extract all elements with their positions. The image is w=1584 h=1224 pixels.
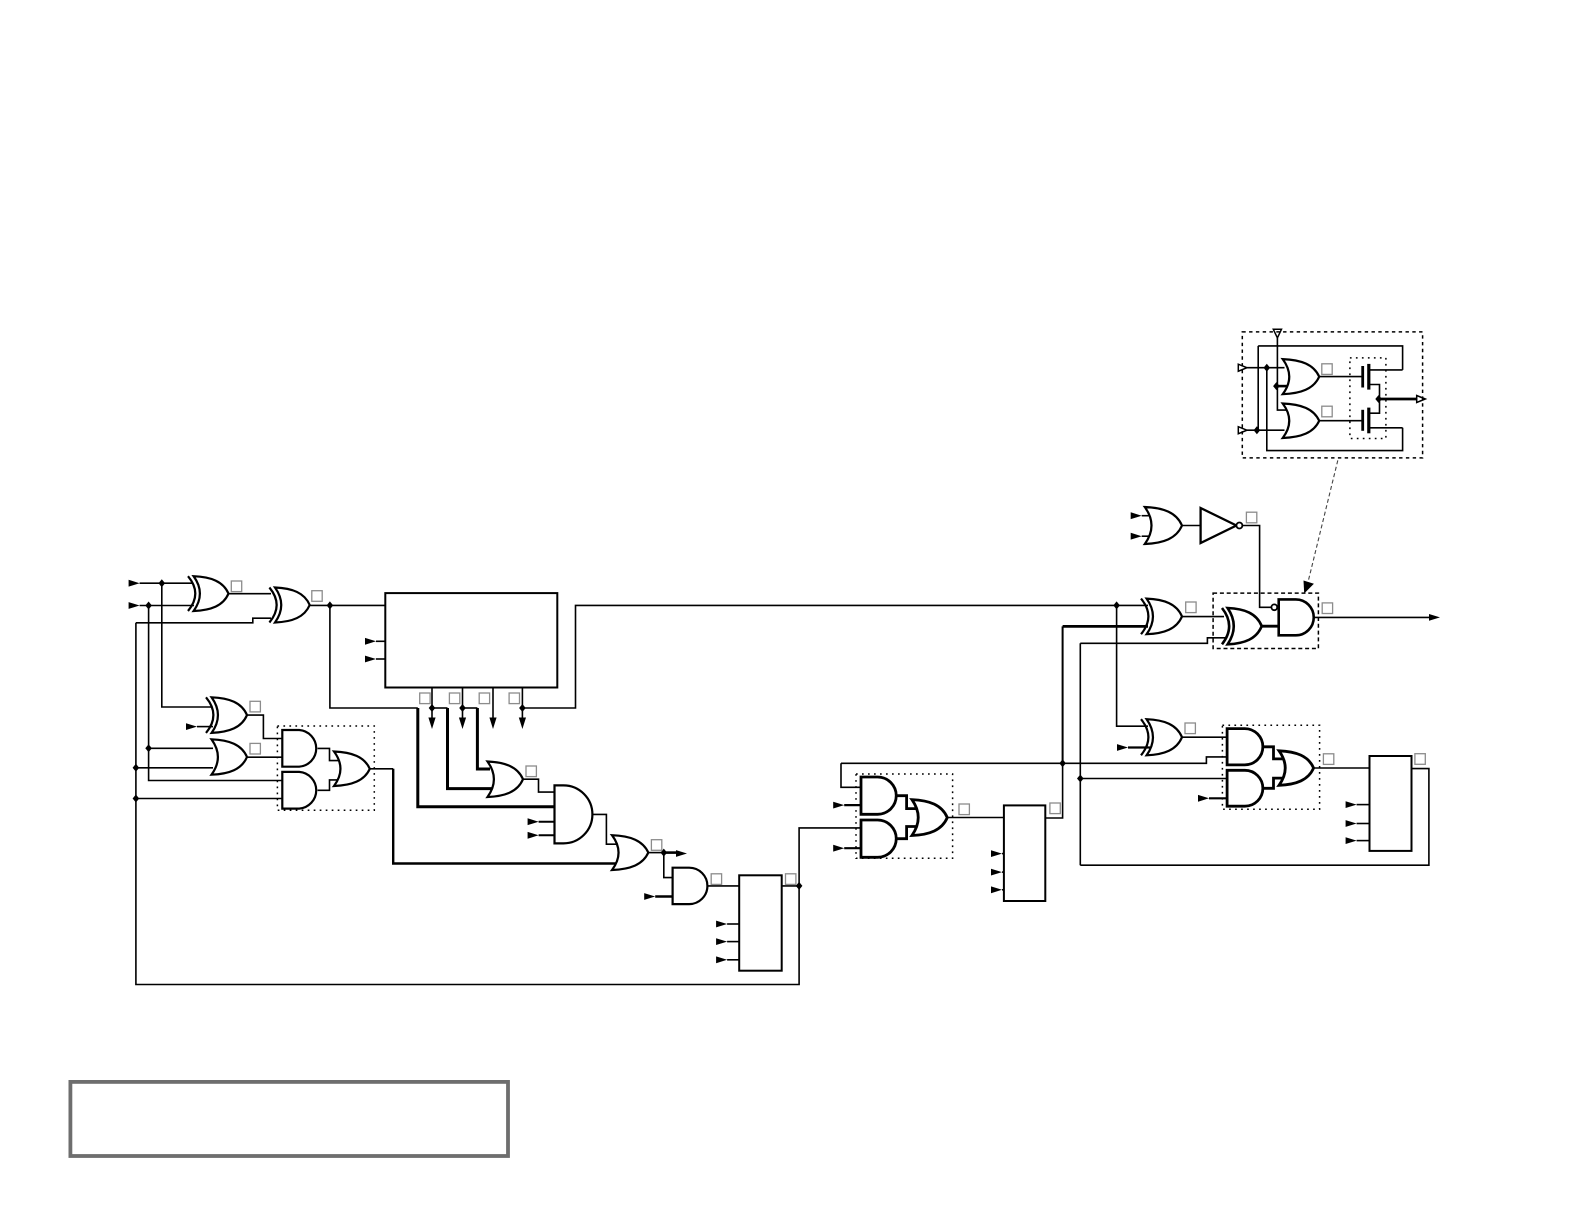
wire XOR U16 out to XOR U19 bbox=[1182, 616, 1224, 618]
wire node B down to AND U6 input bbox=[149, 606, 284, 781]
label square XOR U17 bbox=[1185, 723, 1195, 734]
and gate U11 bbox=[673, 868, 708, 904]
wire output arrow stub D1 bbox=[664, 851, 679, 854]
junction node B bbox=[145, 602, 152, 610]
wire arrow to AND U11 input2 bbox=[655, 895, 674, 898]
wire net A up to XOR U16 input2 bbox=[1062, 626, 1064, 763]
input arrow AND U9 pin3 bbox=[528, 818, 539, 825]
xor gate U2 bbox=[269, 588, 309, 623]
wire transistor Q2 drain to out bbox=[1369, 399, 1380, 413]
wire down to XOR U17 input1 bbox=[1117, 605, 1148, 726]
output arrow block out2 bbox=[459, 718, 466, 730]
and gate U12 mid box top bbox=[861, 777, 896, 814]
input arrow AND U9 pin4 bbox=[528, 832, 539, 839]
wire input A to XOR U1 bbox=[140, 582, 194, 584]
label square OR U13o bbox=[959, 804, 969, 815]
wire block M1 input arrow 2 bbox=[376, 658, 385, 660]
wire block M1 output2 stub bbox=[462, 688, 464, 720]
xor gate U16 bbox=[1141, 599, 1182, 635]
and gate U9 4-input bbox=[555, 785, 593, 843]
wire output2 to OR U8 upper input bbox=[477, 708, 490, 769]
junction OR U10 out bbox=[661, 849, 668, 857]
wire net A thick to XOR U16 input2 bbox=[1063, 625, 1148, 628]
junction node B to OR U4 bbox=[145, 744, 152, 752]
wire feedback left rail and bottom rail bbox=[136, 623, 799, 985]
wire inverter U15 out down to AND U20 bubble bbox=[1242, 526, 1271, 608]
junction node A bbox=[159, 579, 166, 587]
wire output1 to OR U8 lower input bbox=[448, 708, 495, 789]
wire OR U14 input arrow stub 1 bbox=[1142, 515, 1153, 517]
block M1 lookup table bbox=[385, 593, 557, 687]
wire block M3 input arrow 2 bbox=[1002, 871, 1004, 873]
input arrow block M3 pin3 bbox=[991, 886, 1002, 893]
input arrow block M4 pin1 bbox=[1346, 801, 1357, 808]
wire block M3 out up to net A junction bbox=[1045, 763, 1062, 818]
wire AND U12 out step to OR mid bbox=[896, 796, 917, 809]
wire OR D2 out to transistor Q2 gate bbox=[1319, 420, 1361, 422]
and gate U6 bbox=[282, 772, 316, 809]
wire XOR U2 out to block M1 bbox=[310, 604, 386, 606]
inverter U15 bbox=[1201, 508, 1243, 543]
and gate U21 right box bottom bbox=[1227, 770, 1263, 806]
wire XOR U1 out to XOR U2 bbox=[229, 593, 272, 595]
wire AND U9 input arrow stub 2 bbox=[539, 834, 556, 836]
label square block M2 bbox=[786, 874, 796, 885]
wire output2 branch bbox=[463, 707, 478, 709]
wire AND U5 out step to OR U7 bbox=[318, 748, 340, 760]
output arrow D1 bbox=[676, 850, 687, 857]
wire net B branch to AND U21 input1 bbox=[1080, 778, 1229, 780]
wire net A run y763 bbox=[841, 757, 1229, 763]
input arrow AND U21 bbox=[1198, 795, 1209, 802]
input arrow OR U14 pin1 bbox=[1131, 512, 1142, 519]
input arrow block M2 pin3 bbox=[716, 956, 727, 963]
input arrow block M3 pin2 bbox=[991, 869, 1002, 876]
or gate U7 bbox=[334, 752, 370, 787]
wire detail input S vertical bbox=[1277, 338, 1288, 410]
label square OR U4 bbox=[250, 743, 260, 754]
wire net B bottom to block M4 out bbox=[1080, 769, 1429, 866]
wire junction up to AND U13 input bbox=[799, 828, 862, 886]
xor gate U17 bbox=[1141, 719, 1182, 755]
label square AND U11 bbox=[711, 874, 721, 885]
input arrow block M1 pin1 bbox=[365, 638, 376, 645]
wire AND U6 out step to OR U7 bbox=[318, 780, 340, 790]
label square XOR U1 bbox=[231, 581, 241, 592]
dotted box left AND-OR group bbox=[277, 726, 374, 810]
open arrow detail input B bbox=[1238, 427, 1247, 434]
wire block M4 input arrow 1 bbox=[1357, 804, 1370, 806]
label square OR D1 bbox=[1322, 364, 1332, 375]
junction feedback-OR U4 bbox=[133, 764, 140, 772]
input arrow XOR U3 bbox=[186, 723, 197, 730]
wire node A down to XOR U3 input bbox=[162, 583, 212, 707]
label square AND U20 bbox=[1322, 603, 1332, 614]
wire block M3 input arrow 3 bbox=[1002, 889, 1004, 891]
block M3 bbox=[1004, 805, 1045, 901]
wire input B to XOR U1 bbox=[140, 605, 194, 607]
wire XOR U19 out to AND U20 bbox=[1262, 625, 1279, 628]
label square block M4 bbox=[1415, 754, 1425, 765]
open arrow detail input A bbox=[1238, 364, 1247, 371]
wire XOR U3 out to AND U5 bbox=[247, 715, 284, 738]
wire OR U22 out to block M4 bbox=[1314, 767, 1370, 769]
label square XOR U16 bbox=[1186, 602, 1196, 613]
wire OR U4 out to AND U5 input2 bbox=[247, 756, 284, 758]
wire node C down and right bbox=[330, 605, 418, 708]
label square OR D2 bbox=[1322, 406, 1332, 417]
label square block out3 bbox=[479, 693, 489, 704]
input arrow block M3 pin1 bbox=[991, 850, 1002, 857]
xor gate U3 bbox=[206, 697, 247, 733]
wire block M2 out to junction bbox=[782, 885, 799, 887]
junction block out1 bbox=[429, 704, 436, 712]
wire output4 long run to right bbox=[522, 605, 1116, 708]
wire net A left corner to AND U13 input1 bbox=[841, 763, 862, 787]
input arrow block M4 pin3 bbox=[1346, 837, 1357, 844]
wire AND U9 input arrow stub 1 bbox=[539, 821, 556, 823]
input arrow block M4 pin2 bbox=[1346, 820, 1357, 827]
or gate D2 detail box bbox=[1283, 404, 1320, 439]
wire OR U8 out to AND U9 input1 bbox=[523, 779, 556, 792]
wire block M2 input arrow 1 bbox=[727, 923, 739, 925]
wire detail top rail bbox=[1258, 346, 1402, 370]
wire block M2 input arrow 3 bbox=[727, 959, 739, 961]
junction detail input A bbox=[1264, 364, 1271, 372]
dotted box right AND-OR group bbox=[1222, 725, 1319, 809]
junction node C bbox=[327, 601, 334, 609]
wire AND U21 out step to OR U22 bbox=[1263, 778, 1285, 788]
input arrow AND U12b mid bbox=[833, 845, 844, 852]
wire XOR U17 out to AND U18 input1 bbox=[1182, 736, 1229, 738]
wire detail bottom rail bbox=[1267, 368, 1403, 451]
junction detail output bbox=[1375, 395, 1382, 403]
label square block out2 bbox=[449, 693, 459, 704]
dashed box XOR-AND group bbox=[1213, 593, 1318, 648]
wire block M1 output4 stub bbox=[521, 688, 523, 720]
input arrow block M1 pin2 bbox=[365, 656, 376, 663]
input arrow B bbox=[129, 602, 140, 609]
junction detail input B bbox=[1254, 426, 1261, 434]
input arrow AND U11 bbox=[644, 893, 655, 900]
wire OR U14 out to inverter U15 bbox=[1182, 525, 1201, 527]
output arrow main bbox=[1429, 614, 1440, 621]
or gate U4 bbox=[212, 739, 248, 774]
open arrow detail output bbox=[1417, 396, 1426, 403]
and gate U20 with input bubble bbox=[1271, 599, 1313, 635]
wire OR U7 out down to OR U10 lower input bbox=[393, 769, 618, 864]
wire XOR U3 input arrow stub bbox=[197, 726, 213, 728]
wire OR U14 input arrow stub 2 bbox=[1142, 535, 1153, 537]
wire transistor Q1 source to out bbox=[1369, 385, 1380, 400]
label square block out4 bbox=[509, 693, 519, 704]
and gate U18 right box top bbox=[1227, 729, 1263, 765]
or gate U13o mid box bbox=[912, 800, 947, 836]
wire XOR U17 input arrow stub bbox=[1128, 746, 1150, 748]
junction net A bbox=[1059, 759, 1066, 767]
wire transistor Q2 source bbox=[1369, 427, 1403, 429]
wire AND U12b out step to OR mid bbox=[896, 827, 917, 839]
transistor Q1 bbox=[1363, 364, 1369, 390]
wire block M4 input arrow 2 bbox=[1357, 823, 1370, 825]
wire AND U9 out to OR U10 bbox=[592, 814, 617, 844]
wire AND U18 input arrow stub bbox=[1209, 797, 1229, 799]
wire AND U18 out step to OR U22 bbox=[1263, 747, 1285, 759]
junction detail S line bbox=[1273, 382, 1280, 390]
junction net B bbox=[1077, 775, 1084, 783]
wire block M4 input arrow 3 bbox=[1357, 840, 1370, 842]
wire AND U12b input arrow stub bbox=[844, 847, 863, 849]
label square OR U22 bbox=[1323, 754, 1333, 765]
label square inverter U15 bbox=[1246, 512, 1256, 523]
input arrow block M2 pin2 bbox=[716, 938, 727, 945]
wire AND U20 out to output arrow bbox=[1314, 616, 1430, 618]
label square XOR U3 bbox=[250, 701, 260, 712]
wire feedback branch to OR U4 lower input bbox=[136, 767, 213, 769]
input arrow OR U14 pin2 bbox=[1131, 533, 1142, 540]
wire junction down to AND U11 bbox=[664, 853, 674, 878]
junction block M2 out bbox=[796, 882, 803, 890]
input arrow AND U12 mid bbox=[833, 802, 844, 809]
wire feedback to XOR U2 lower input bbox=[136, 618, 271, 623]
wire to XOR U16 input1 bbox=[1117, 604, 1148, 606]
input arrow block M2 pin1 bbox=[716, 921, 727, 928]
input arrow XOR U17 bbox=[1117, 744, 1128, 751]
wire OR U7 out bbox=[370, 768, 393, 770]
block M2 bbox=[739, 875, 782, 970]
wire output1 branch bbox=[432, 707, 448, 709]
wire transistor Q1 drain bbox=[1369, 369, 1403, 371]
wire feedback branch to AND U6 lower input bbox=[136, 798, 284, 800]
wire node C to AND U9 input2 bbox=[418, 708, 556, 807]
wire block M1 input arrow 1 bbox=[376, 640, 385, 642]
block M4 bbox=[1370, 756, 1412, 851]
and gate U12b mid box bottom bbox=[861, 820, 896, 857]
label square OR U8 bbox=[526, 766, 536, 777]
title box bottom left bbox=[70, 1082, 508, 1156]
wire detail output bbox=[1379, 398, 1417, 401]
wire net B vertical bbox=[1079, 643, 1081, 865]
xor gate U1 bbox=[188, 576, 229, 611]
wire detail S branch to OR D1 input2 bbox=[1276, 385, 1291, 388]
wire node B branch to OR U4 input bbox=[149, 747, 213, 749]
wire OR U10 out to junction bbox=[648, 852, 664, 854]
input arrow A bbox=[129, 580, 140, 587]
wire block M1 output3 stub bbox=[492, 688, 494, 720]
wire AND U13 input arrow stub bbox=[844, 804, 863, 806]
or gate U22 right box bbox=[1279, 751, 1314, 786]
dotted box mid AND-OR group bbox=[856, 774, 953, 858]
wire block M1 output1 stub bbox=[431, 688, 433, 720]
junction output4 top bbox=[1113, 601, 1120, 609]
output arrow block out4 bbox=[519, 718, 526, 730]
or gate U10 bbox=[612, 835, 648, 870]
leader dashed arrow to dashed box bbox=[1304, 460, 1338, 593]
wire detail input A run bbox=[1247, 367, 1285, 369]
label square block M3 bbox=[1050, 803, 1060, 814]
output arrow block out1 bbox=[428, 718, 435, 730]
or gate U8 bbox=[488, 762, 524, 798]
output arrow block out3 bbox=[489, 718, 496, 730]
wire AND U11 out to block M2 bbox=[707, 885, 739, 887]
xor gate U19 dashed box bbox=[1222, 608, 1262, 644]
or gate U14 bbox=[1145, 507, 1182, 544]
label square OR U10 bbox=[651, 840, 661, 851]
wire net B top to XOR U19 input2 bbox=[1080, 638, 1227, 644]
transistor Q2 bbox=[1363, 408, 1369, 434]
wire OR D1 out to transistor Q1 gate bbox=[1319, 376, 1361, 378]
or gate D1 detail box bbox=[1283, 359, 1320, 394]
dotted box transistor pair bbox=[1350, 358, 1386, 439]
wire block M3 input arrow 1 bbox=[1002, 853, 1004, 855]
label square XOR U2 bbox=[312, 591, 322, 602]
wire block M2 input arrow 2 bbox=[727, 941, 739, 943]
junction feedback-AND U6 bbox=[133, 795, 140, 803]
junction block out2 bbox=[459, 704, 466, 712]
dashed box detail implementation bbox=[1242, 332, 1422, 458]
wire detail left vertical to input B bbox=[1257, 346, 1259, 430]
open arrow detail input S bbox=[1273, 329, 1281, 338]
label square block out1 bbox=[420, 693, 430, 704]
wire OR U13o out to block M3 bbox=[947, 817, 1004, 819]
wire detail input B run bbox=[1247, 429, 1285, 431]
junction block out4 bbox=[519, 704, 526, 712]
and gate U5 bbox=[282, 730, 316, 767]
